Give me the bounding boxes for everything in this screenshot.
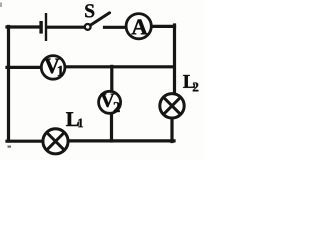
wire: battery to switch pivot [47, 26, 84, 29]
wire: V1 to right rail [66, 65, 174, 68]
voltmeter V1 circle [41, 56, 65, 80]
battery B1 negative plate (short thick) [39, 21, 42, 34]
wire: L2 to bottom rail [170, 119, 173, 142]
ammeter A1 circle [126, 14, 151, 39]
voltmeter V1 letter [44, 59, 59, 74]
voltmeter V2 letter [101, 94, 115, 107]
scan speck below bottom-left corner [8, 146, 12, 148]
lamp L2 cross [164, 98, 180, 114]
label S [85, 4, 94, 17]
scan speck top-left edge [0, 3, 2, 8]
label L1 [66, 112, 79, 126]
lamp L1 cross [47, 133, 64, 150]
voltmeter V1 subscript [58, 66, 64, 76]
switch S blade [90, 13, 109, 25]
wire: middle rail, left rail to V1 [7, 66, 41, 69]
voltmeter V2 circle [99, 91, 121, 113]
label L2 [183, 75, 195, 88]
battery B1 positive plate (long thin) [45, 13, 47, 41]
lamp L2 circle [160, 94, 184, 118]
wire: T-junction drop to V2 [110, 66, 113, 91]
wire: bottom rail, left corner to L1 [7, 140, 44, 143]
wire: V2 to bottom rail [110, 114, 113, 141]
wire: right vertical rail upper (corner to lamp L2) [173, 25, 176, 93]
wire: L1 to bottom-right corner [69, 139, 175, 142]
voltmeter V2 subscript [114, 102, 120, 112]
ammeter A1 letter [132, 19, 148, 34]
lamp L1 circle [43, 129, 68, 154]
switch S pivot [85, 24, 91, 30]
wire: switch to ammeter [105, 26, 126, 29]
wire: left vertical rail [7, 27, 10, 142]
wire: ammeter to top-right corner [152, 25, 175, 28]
wire: top rail, corner to battery [7, 25, 40, 28]
